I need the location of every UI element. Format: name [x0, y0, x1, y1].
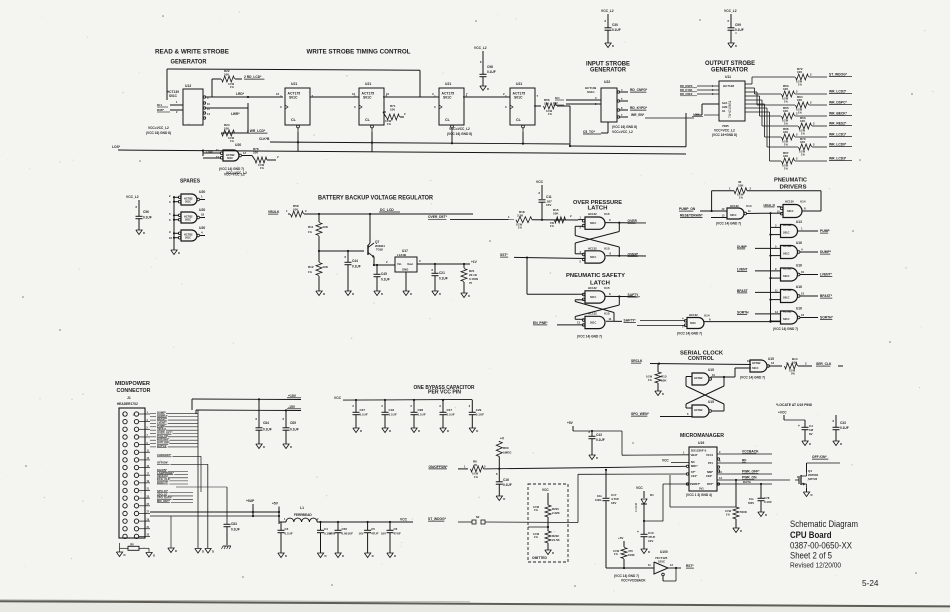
svg-text:-15V: -15V [288, 405, 296, 409]
svg-text:HC7B2: HC7B2 [694, 408, 703, 412]
svg-text:CHRGOFF*: CHRGOFF* [157, 453, 172, 457]
svg-text:FERRBEAD: FERRBEAD [294, 513, 312, 517]
svg-text:8±1: 8±1 [157, 103, 162, 107]
svg-text:CONNECTOR: CONNECTOR [117, 388, 151, 394]
svg-text:D: D [552, 551, 554, 555]
svg-text:10n: 10n [749, 497, 754, 501]
svg-text:VCC_L2: VCC_L2 [126, 195, 139, 199]
svg-text:0.1UF: 0.1UF [612, 28, 621, 32]
svg-text:500V: 500V [748, 501, 754, 505]
svg-text:D: D [175, 549, 177, 553]
svg-text:CE1*: CE1* [691, 474, 698, 478]
svg-text:HC132: HC132 [689, 313, 698, 317]
svg-text:16V: 16V [359, 532, 364, 536]
svg-text:R11: R11 [308, 225, 314, 229]
svg-text:SAFTY: SAFTY [628, 293, 640, 297]
svg-text:HIGH_N: HIGH_N [764, 203, 775, 207]
svg-text:18: 18 [201, 213, 205, 217]
svg-text:0.1UF: 0.1UF [231, 528, 240, 532]
svg-text:DRIVERS: DRIVERS [780, 184, 807, 190]
svg-text:1MEG: 1MEG [503, 451, 512, 455]
svg-text:OMITTED: OMITTED [532, 556, 547, 560]
svg-text:WR_LCD0*: WR_LCD0* [829, 143, 847, 147]
svg-text:10: 10 [801, 270, 805, 274]
svg-text:*LOCATE AT U19 PIN8: *LOCATE AT U19 PIN8 [776, 403, 812, 407]
svg-text:RESETDRAIN*: RESETDRAIN* [680, 214, 703, 218]
svg-text:VCC: VCC [334, 396, 342, 400]
svg-text:S01C: S01C [185, 201, 191, 204]
svg-text:RF: RF [742, 459, 746, 463]
svg-text:S01C: S01C [185, 219, 191, 222]
svg-text:HEADER17X2: HEADER17X2 [117, 402, 138, 406]
svg-text:BFAST: BFAST [737, 289, 748, 293]
svg-text:CE0*: CE0* [706, 474, 713, 478]
svg-text:U20: U20 [235, 143, 241, 147]
svg-text:HC130: HC130 [785, 200, 794, 204]
svg-text:S01C: S01C [590, 296, 596, 299]
svg-text:5-24: 5-24 [862, 578, 879, 588]
svg-text:0.1UF: 0.1UF [596, 438, 605, 442]
svg-text:100: 100 [783, 130, 788, 134]
svg-text:CL: CL [365, 118, 371, 122]
svg-text:S01C: S01C [514, 96, 523, 100]
svg-text:J1: J1 [127, 396, 131, 400]
svg-text:RST*: RST* [686, 564, 694, 568]
svg-text:EN_PNE*: EN_PNE* [533, 321, 548, 325]
svg-text:C27: C27 [360, 408, 366, 412]
svg-text:+5V: +5V [567, 421, 574, 425]
svg-text:D: D [487, 87, 489, 91]
svg-text:TO92: TO92 [376, 248, 383, 252]
svg-text:RD_KYB1: RD_KYB1 [680, 88, 693, 92]
svg-text:LVENT: LVENT [737, 267, 748, 271]
svg-text:S01C: S01C [289, 96, 298, 100]
svg-text:100: 100 [253, 151, 258, 155]
svg-text:U21: U21 [445, 82, 451, 86]
svg-text:C83: C83 [231, 522, 237, 526]
svg-text:D: D [740, 529, 742, 533]
svg-text:RST*: RST* [707, 482, 714, 486]
svg-text:2.32K: 2.32K [552, 511, 561, 515]
svg-text:2 WR_LCD*: 2 WR_LCD* [247, 129, 266, 133]
svg-text:U19: U19 [698, 441, 704, 445]
svg-text:0.1UF: 0.1UF [263, 428, 272, 432]
svg-text:DATA: DATA [743, 480, 752, 484]
svg-text:S01C: S01C [590, 322, 596, 325]
svg-text:U15: U15 [708, 400, 714, 404]
svg-text:RD_KYPD*: RD_KYPD* [630, 106, 648, 110]
svg-text:WR_BECK*: WR_BECK* [829, 112, 848, 116]
svg-text:16V: 16V [381, 532, 386, 536]
svg-text:100: 100 [390, 108, 395, 112]
svg-text:16V: 16V [611, 501, 616, 505]
svg-text:500K: 500K [740, 510, 748, 514]
svg-text:MR1*: MR1* [691, 464, 699, 468]
svg-text:10K: 10K [323, 225, 329, 229]
svg-text:Revised 12/20/00: Revised 12/20/00 [790, 561, 841, 570]
svg-text:10V: 10V [648, 539, 653, 543]
svg-text:U16: U16 [796, 263, 802, 267]
svg-text:SAFTY*: SAFTY* [624, 318, 637, 322]
svg-text:D: D [372, 554, 374, 558]
svg-text:0.1UF: 0.1UF [476, 413, 484, 417]
svg-text:LATCH: LATCH [588, 205, 608, 211]
svg-text:WR_LCD3*: WR_LCD3* [829, 157, 847, 161]
svg-text:VCC=VCC_L2: VCC=VCC_L2 [714, 129, 735, 133]
svg-text:C43: C43 [596, 433, 602, 437]
svg-text:0.1UF: 0.1UF [840, 426, 849, 430]
svg-text:0.1UF: 0.1UF [447, 413, 455, 417]
svg-text:PNEUMATIC SAFETY: PNEUMATIC SAFETY [566, 273, 625, 279]
svg-text:HC7B2: HC7B2 [783, 310, 792, 314]
svg-text:HC7B2: HC7B2 [752, 361, 761, 365]
svg-text:12: 12 [801, 313, 805, 317]
svg-text:C27: C27 [447, 408, 453, 412]
svg-text:DUMP*: DUMP* [820, 250, 832, 254]
svg-text:U20: U20 [199, 190, 205, 194]
svg-text:U15: U15 [604, 247, 610, 251]
svg-text:47UF: 47UF [371, 532, 379, 536]
svg-text:VCC_L2: VCC_L2 [474, 46, 487, 50]
svg-text:VCC: VCC [536, 180, 544, 184]
svg-text:0.1UF: 0.1UF [381, 278, 390, 282]
svg-text:D: D [285, 554, 287, 558]
svg-text:+: + [798, 424, 800, 428]
svg-text:G2A: G2A [722, 101, 727, 105]
svg-text:0.001UF: 0.001UF [342, 532, 354, 536]
svg-text:D: D [418, 429, 420, 433]
svg-text:+15V: +15V [288, 394, 297, 398]
svg-text:100: 100 [783, 109, 788, 113]
svg-text:U15: U15 [604, 286, 610, 290]
svg-text:D: D [447, 429, 449, 433]
svg-text:13: 13 [771, 361, 775, 365]
svg-text:10K: 10K [661, 379, 667, 383]
svg-text:R/W*: R/W* [157, 108, 165, 112]
svg-text:47UF: 47UF [394, 532, 402, 536]
svg-text:(VCC 1 3) GND 4): (VCC 1 3) GND 4) [686, 493, 712, 497]
svg-text:D: D [809, 442, 811, 446]
svg-text:D: D [765, 513, 767, 517]
svg-text:VBULK: VBULK [268, 210, 280, 214]
svg-text:PUMP: PUMP [820, 229, 830, 233]
svg-text:D: D [323, 292, 325, 296]
svg-text:0.1UF: 0.1UF [764, 500, 772, 504]
svg-text:LRD*: LRD* [236, 92, 245, 96]
svg-text:9±2: 9±2 [553, 101, 558, 105]
svg-text:G1: G1 [722, 109, 726, 113]
svg-text:DC_LCD: DC_LCD [380, 208, 394, 212]
svg-text:READ & WRITE STROBE: READ & WRITE STROBE [155, 49, 230, 56]
svg-text:PNEUMATIC: PNEUMATIC [774, 177, 807, 183]
svg-text:S01C: S01C [787, 209, 794, 213]
svg-text:Vin: Vin [397, 262, 402, 266]
svg-text:C99: C99 [735, 23, 741, 27]
svg-text:3.3K: 3.3K [517, 213, 524, 217]
svg-text:D: D [476, 429, 478, 433]
svg-text:MIDI/POWER: MIDI/POWER [115, 381, 150, 387]
svg-text:L1: L1 [300, 506, 304, 510]
svg-text:C16: C16 [503, 478, 509, 482]
svg-text:+5UP: +5UP [246, 499, 255, 503]
svg-text:VCC: VCC [400, 518, 408, 522]
svg-text:U21: U21 [291, 82, 297, 86]
svg-text:100: 100 [797, 98, 802, 102]
svg-text:D: D [394, 554, 396, 558]
svg-text:ST_WDOG*: ST_WDOG* [428, 517, 447, 521]
svg-text:+: + [637, 530, 639, 534]
svg-text:(VCC 14) GND 7): (VCC 14) GND 7) [773, 327, 798, 331]
svg-text:VCC_L2: VCC_L2 [724, 9, 737, 13]
svg-text:BATTERY BACKUP VOLTAGE REGULAT: BATTERY BACKUP VOLTAGE REGULATOR [318, 196, 434, 202]
svg-text:75: 75 [469, 281, 473, 285]
svg-text:HC7138: HC7138 [723, 84, 734, 88]
svg-text:U22: U22 [604, 80, 610, 84]
svg-text:SORTH*: SORTH* [820, 316, 834, 320]
svg-text:0.1W: 0.1W [725, 509, 732, 513]
svg-text:OVER_DET*: OVER_DET* [428, 215, 448, 219]
svg-text:C11: C11 [546, 195, 552, 199]
svg-text:U13: U13 [796, 220, 802, 224]
svg-text:L29*: L29* [693, 113, 700, 117]
svg-text:D: D [503, 497, 505, 501]
svg-text:C30: C30 [612, 23, 618, 27]
svg-text:RD_CNFG*: RD_CNFG* [630, 88, 648, 92]
svg-text:0.1UF: 0.1UF [143, 216, 152, 220]
svg-text:100: 100 [800, 119, 805, 123]
svg-text:C18: C18 [389, 408, 395, 412]
svg-text:D: D [811, 493, 813, 497]
svg-text:U16: U16 [796, 306, 802, 310]
svg-text:C56: C56 [143, 210, 149, 214]
svg-text:DS1236F-5: DS1236F-5 [691, 449, 707, 453]
svg-text:(VCC 16+GND 8): (VCC 16+GND 8) [712, 133, 737, 137]
svg-text:HC7B2: HC7B2 [783, 223, 792, 227]
svg-text:1N4148: 1N4148 [634, 502, 638, 512]
svg-text:INPUT STROBE: INPUT STROBE [586, 61, 630, 67]
svg-text:D: D [202, 550, 204, 554]
svg-text:C3: C3 [285, 527, 289, 531]
svg-text:VCC: VCC [636, 486, 643, 490]
svg-text:R60: R60 [503, 446, 509, 450]
svg-text:S01C: S01C [783, 296, 790, 300]
svg-text:WR_RES2*: WR_RES2* [829, 122, 847, 126]
svg-text:Vout: Vout [407, 262, 413, 266]
svg-text:S01C: S01C [783, 317, 790, 321]
svg-text:(VCC 16) GND 8): (VCC 16) GND 8) [612, 125, 637, 129]
svg-text:S01C: S01C [363, 96, 372, 100]
svg-text:S01C: S01C [169, 94, 178, 98]
svg-text:D: D [263, 445, 265, 449]
svg-text:C85: C85 [290, 421, 296, 425]
svg-text:D: D [662, 392, 664, 396]
svg-text:BODY/T*: BODY/T* [157, 480, 169, 484]
svg-text:HC7B2: HC7B2 [783, 267, 792, 271]
svg-text:D: D [360, 429, 362, 433]
svg-text:(VCC 14) GND 7): (VCC 14) GND 7) [740, 376, 765, 380]
svg-text:JP2: JP2 [130, 544, 135, 547]
svg-text:S01C: S01C [590, 256, 596, 259]
svg-text:WR_LCD2*: WR_LCD2* [829, 90, 847, 94]
svg-text:U15: U15 [604, 212, 610, 216]
svg-text:S01C: S01C [730, 213, 737, 217]
svg-text:R12: R12 [308, 265, 314, 269]
svg-text:U21: U21 [516, 82, 522, 86]
svg-text:10: 10 [386, 92, 390, 96]
svg-text:S01C: S01C [227, 157, 233, 160]
svg-text:D: D [840, 442, 842, 446]
svg-text:CL: CL [445, 118, 451, 122]
svg-text:SST*: SST* [500, 253, 508, 257]
svg-text:(VCC 16) GND 8): (VCC 16) GND 8) [447, 132, 472, 136]
svg-text:PER VCC PIN: PER VCC PIN [428, 390, 461, 396]
svg-text:0.1UF: 0.1UF [418, 413, 426, 417]
svg-text:D: D [153, 554, 155, 558]
svg-text:U16: U16 [796, 241, 802, 245]
svg-text:(VCC 14) GND 7): (VCC 14) GND 7) [577, 335, 602, 339]
svg-text:11: 11 [609, 317, 612, 321]
svg-text:0.1UF: 0.1UF [503, 483, 512, 487]
svg-text:D: D [212, 550, 214, 554]
svg-text:ON/OFFSW*: ON/OFFSW* [429, 465, 449, 469]
svg-text:HC132: HC132 [588, 247, 597, 251]
svg-text:HC7B2: HC7B2 [783, 288, 792, 292]
svg-text:Schematic Diagram: Schematic Diagram [790, 518, 858, 529]
svg-text:Sheet 2 of 5: Sheet 2 of 5 [790, 550, 832, 561]
svg-text:VCC=VCC_L2: VCC=VCC_L2 [148, 126, 169, 130]
svg-text:U15: U15 [708, 368, 714, 372]
svg-text:RD_DSP0: RD_DSP0 [680, 84, 693, 88]
svg-text:HC7B2: HC7B2 [694, 376, 703, 380]
svg-text:OVER*: OVER* [628, 252, 639, 256]
svg-text:21.5K: 21.5K [552, 538, 561, 542]
svg-text:C44: C44 [352, 259, 358, 263]
svg-text:C98: C98 [487, 65, 493, 69]
svg-text:GENERATOR: GENERATOR [590, 68, 627, 74]
svg-text:C50: C50 [342, 527, 348, 531]
svg-text:D: D [735, 44, 737, 48]
svg-text:+VCC: +VCC [778, 411, 787, 415]
svg-text:D: D [124, 553, 126, 557]
svg-text:NMI*: NMI* [707, 470, 714, 474]
svg-text:VCC=VCC_L2: VCC=VCC_L2 [612, 130, 633, 134]
svg-text:0.1W: 0.1W [646, 375, 653, 379]
svg-text:13: 13 [801, 292, 805, 296]
svg-text:WR_DSPC*: WR_DSPC* [829, 101, 847, 105]
svg-text:NC: NC [691, 460, 695, 464]
svg-text:G2B: G2B [722, 105, 727, 109]
svg-text:SPO_WEN*: SPO_WEN* [631, 412, 649, 416]
svg-text:GENERATOR: GENERATOR [711, 68, 749, 74]
svg-text:U11: U11 [725, 75, 731, 79]
svg-text:PWR_OFF*: PWR_OFF* [742, 470, 760, 474]
svg-text:10K: 10K [323, 265, 329, 269]
svg-text:+5V: +5V [272, 502, 279, 506]
svg-text:WR_EN*: WR_EN* [631, 113, 645, 117]
svg-text:15V: 15V [546, 203, 551, 207]
svg-text:500V: 500V [329, 532, 336, 536]
svg-text:100: 100 [783, 154, 788, 158]
svg-text:10: 10 [169, 236, 173, 240]
svg-text:+5V: +5V [618, 536, 623, 540]
svg-text:N2: N2 [476, 515, 480, 519]
svg-text:100Ω: 100Ω [595, 498, 601, 502]
svg-text:D: D [178, 251, 180, 255]
svg-text:C33: C33 [840, 421, 846, 425]
svg-text:+1V: +1V [471, 260, 478, 264]
svg-text:SER_CLK: SER_CLK [816, 362, 832, 366]
svg-text:2 RD_LCD*: 2 RD_LCD* [244, 75, 262, 79]
svg-text:(VCC 16) GND 8): (VCC 16) GND 8) [146, 131, 171, 135]
svg-text:D: D [352, 292, 354, 296]
svg-text:S01C: S01C [783, 252, 790, 256]
svg-text:S01C: S01C [185, 237, 191, 240]
svg-text:0.1UF: 0.1UF [352, 265, 361, 269]
svg-text:VBAT: VBAT [691, 453, 698, 457]
svg-text:D: D [648, 550, 650, 554]
svg-text:C45: C45 [381, 272, 387, 276]
svg-text:7085: 7085 [722, 124, 729, 128]
svg-text:CPU Board: CPU Board [790, 529, 832, 540]
svg-text:10K: 10K [738, 184, 744, 188]
svg-text:D: D [290, 445, 292, 449]
svg-text:100: 100 [800, 140, 805, 144]
svg-text:10K: 10K [553, 212, 559, 216]
svg-text:8V: 8V [809, 432, 813, 436]
svg-text:GENERATOR: GENERATOR [171, 58, 207, 65]
svg-text:L124B: L124B [397, 253, 407, 257]
svg-text:OVER: OVER [628, 219, 638, 223]
svg-text:VCC: VCC [662, 459, 669, 463]
svg-text:0.1UF: 0.1UF [439, 277, 448, 281]
svg-text:8±1: 8±1 [555, 96, 560, 100]
svg-text:PUMP_ON: PUMP_ON [679, 207, 696, 211]
svg-text:12: 12 [352, 92, 356, 96]
svg-text:VCC: VCC [542, 488, 549, 492]
svg-text:ST_WDOG*: ST_WDOG* [829, 73, 848, 77]
svg-text:C84: C84 [263, 421, 269, 425]
svg-text:(VCC 14) GND 7): (VCC 14) GND 7) [614, 574, 639, 578]
svg-text:CLK*B: CLK*B [259, 137, 270, 141]
svg-text:D: D [325, 554, 327, 558]
svg-text:C98: C98 [418, 408, 424, 412]
svg-text:RD_CNF2: RD_CNF2 [680, 92, 693, 96]
svg-text:D: D [596, 456, 598, 460]
svg-text:C6: C6 [394, 527, 398, 531]
svg-text:CL: CL [516, 118, 522, 122]
svg-text:C5_TO*: C5_TO* [583, 130, 596, 134]
svg-text:BATV/2: BATV/2 [157, 444, 167, 448]
svg-text:D: D [612, 44, 614, 48]
svg-text:5V1: 5V1 [699, 487, 704, 491]
svg-text:S01C: S01C [752, 366, 759, 370]
svg-text:S01C: S01C [690, 322, 696, 325]
svg-text:SOT23: SOT23 [808, 477, 818, 481]
svg-text:0.1UF: 0.1UF [389, 413, 397, 417]
svg-text:0.1UF: 0.1UF [290, 428, 299, 432]
svg-text:U100: U100 [660, 550, 668, 554]
svg-text:100: 100 [797, 70, 802, 74]
svg-text:PWR_ON: PWR_ON [742, 476, 757, 480]
svg-text:U20: U20 [199, 208, 205, 212]
svg-text:OUTPUT STROBE: OUTPUT STROBE [705, 61, 755, 67]
svg-text:VCC=VCC_L2: VCC=VCC_L2 [449, 127, 470, 131]
svg-text:D: D [410, 292, 412, 296]
svg-text:SRCLK: SRCLK [631, 359, 643, 363]
svg-text:OFF/ON*: OFF/ON* [157, 461, 169, 465]
svg-text:HC7B2: HC7B2 [783, 244, 792, 248]
svg-text:VCC=VCCBACK: VCC=VCCBACK [621, 579, 646, 583]
